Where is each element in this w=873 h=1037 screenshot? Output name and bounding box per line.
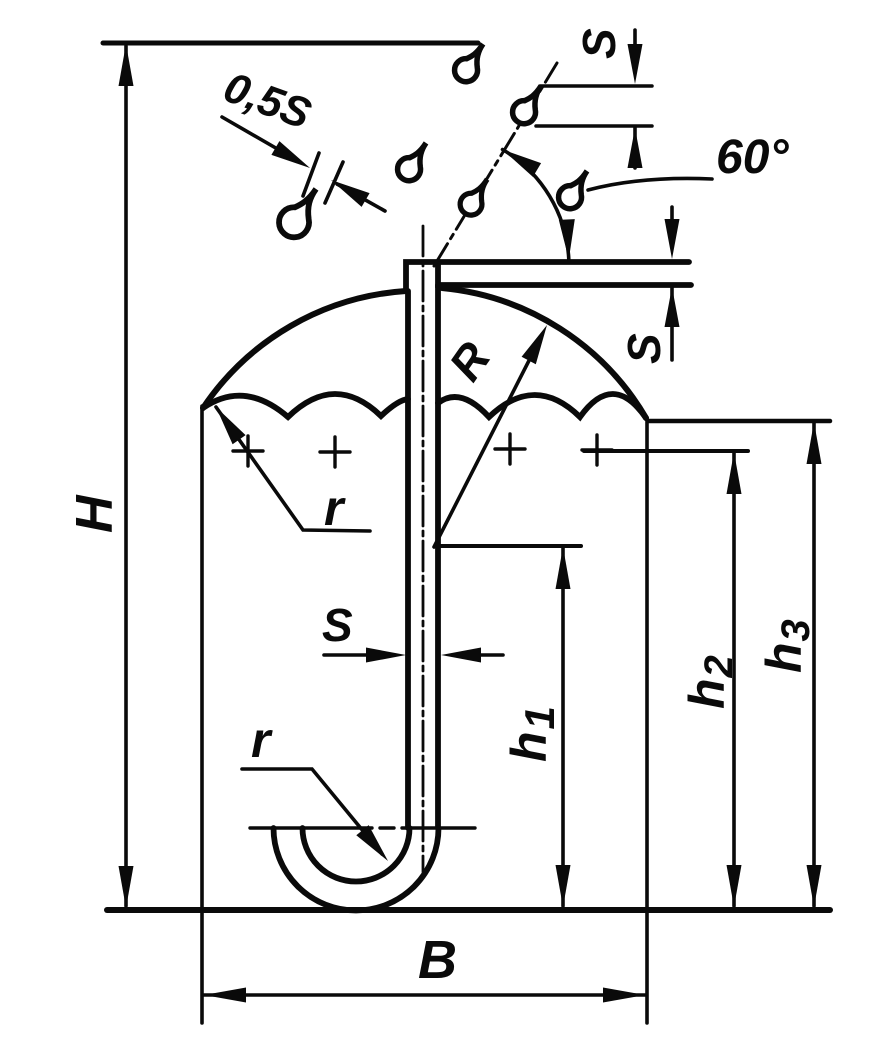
r upper arrowhead [216, 407, 246, 444]
drop S extension lines [540, 84, 652, 88]
S drop dimension vertical line [633, 30, 637, 47]
h2 dimension line [732, 453, 736, 906]
h3 arrow down [807, 865, 822, 907]
ground baseline [107, 907, 830, 913]
plus mark 1 [233, 436, 263, 466]
handle hook outer arc [274, 828, 439, 910]
h2 extension line [584, 449, 748, 453]
raindrop 5 at 60 leader [559, 171, 587, 209]
B right extension line [645, 420, 649, 1023]
0.5S arrow 2 [331, 180, 370, 207]
h2 arrow down [727, 865, 742, 907]
r lower leader [242, 769, 382, 854]
r lower arrowhead [356, 825, 388, 861]
hook centerline (dash-dot) [250, 826, 475, 829]
raindrop 4 on rain line [460, 179, 487, 215]
h1 arrow down [556, 865, 571, 907]
0.5S dimension line upper [222, 117, 300, 162]
h3 arrow up [807, 422, 822, 464]
shaft centerline (dash-dot) [422, 226, 425, 872]
H dimension line [124, 46, 128, 906]
umbrella dome left arc [203, 291, 406, 408]
60 arc arrow lower [559, 219, 575, 259]
scalloped canopy edge [203, 394, 408, 417]
svg-text:R: R [439, 333, 501, 390]
svg-text:B: B [418, 930, 457, 990]
svg-text:H: H [66, 494, 124, 533]
r upper leader [216, 407, 370, 531]
60 leader line [588, 178, 712, 190]
h1 extension line [436, 544, 581, 548]
60 arc arrow upper [503, 150, 542, 177]
B left extension line [200, 406, 204, 1023]
S flange arrow up [665, 287, 680, 327]
plus mark 2 [320, 437, 350, 467]
h3 extension line [648, 419, 830, 424]
flange bottom line [438, 264, 691, 285]
S shaft dimension lines [324, 653, 370, 657]
B dimension line [203, 993, 646, 997]
handle hook inner arc [303, 828, 410, 882]
raindrop 3 on S measurement [513, 86, 541, 124]
svg-text:r: r [251, 712, 273, 768]
top extension line of H dimension [103, 41, 478, 46]
shaft right wall [435, 285, 441, 828]
svg-text:h1: h1 [501, 706, 563, 762]
raindrop 1 at end of top line [455, 44, 483, 82]
shaft left wall [405, 291, 411, 828]
S drop arrow up [628, 128, 643, 168]
plus mark 3 [495, 434, 525, 464]
0.5S tick 1 [303, 153, 319, 196]
H arrow down [119, 866, 134, 908]
h1 arrow up [556, 547, 571, 589]
B arrow left [204, 988, 246, 1003]
60 degree dash-dot rain line [434, 63, 557, 266]
plus mark 4 [582, 435, 612, 465]
svg-text:h2: h2 [679, 655, 741, 709]
H arrow up [119, 44, 134, 86]
svg-text:S: S [618, 333, 670, 364]
svg-text:S: S [573, 28, 625, 59]
svg-text:r: r [324, 480, 346, 536]
umbrella dome right arc [442, 288, 646, 418]
svg-text:h3: h3 [756, 619, 818, 673]
60 degree arc [503, 150, 569, 260]
S flange dimension line [670, 207, 674, 222]
raindrop 6 at 0.5S [279, 189, 316, 237]
0.5S dimension line lower [337, 184, 385, 211]
R dimension line [434, 339, 540, 547]
0.5S tick 2 [325, 162, 343, 203]
S shaft arrow right [366, 648, 406, 663]
raindrop 2 [398, 143, 426, 181]
S shaft arrow left [441, 648, 481, 663]
svg-text:S: S [322, 599, 353, 651]
h3 dimension line [812, 423, 816, 906]
cap top and flange top line [406, 262, 689, 291]
S flange arrow down [665, 219, 680, 259]
arrowheads [119, 44, 822, 1003]
S drop arrow down [628, 44, 643, 84]
0.5S arrow 1 [271, 141, 310, 168]
R arrowhead [522, 325, 547, 364]
h2 arrow up [727, 452, 742, 494]
h1 dimension line [561, 548, 565, 906]
svg-text:60°: 60° [716, 131, 789, 184]
B arrow right [603, 988, 645, 1003]
svg-text:0,5S: 0,5S [218, 63, 318, 138]
